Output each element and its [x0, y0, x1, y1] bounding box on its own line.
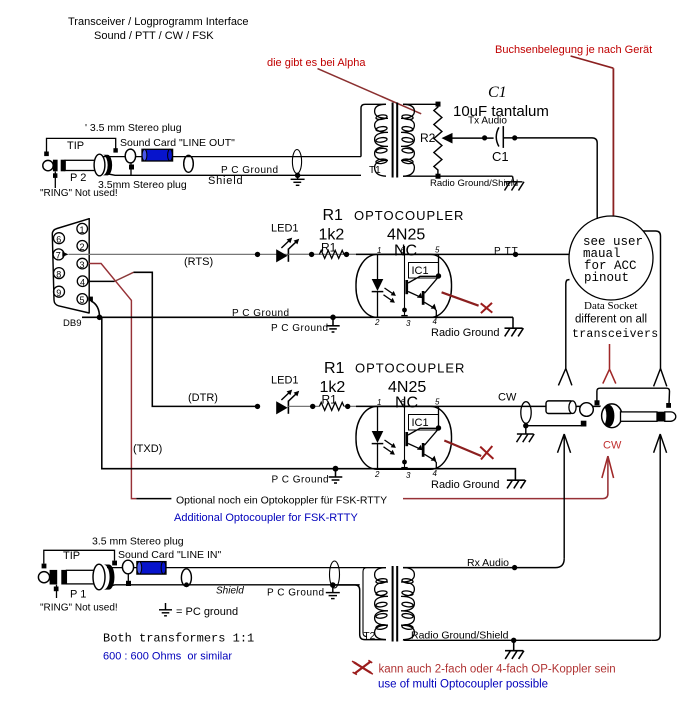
red arrow lower middle	[602, 456, 614, 478]
IC1 label box row2	[409, 415, 439, 431]
svg-text:P C Ground: P C Ground	[271, 323, 329, 334]
node dot PTT	[513, 252, 518, 257]
IC1 label box row1	[409, 263, 439, 279]
svg-text:CW: CW	[498, 392, 517, 404]
LED1 row1	[276, 249, 287, 262]
RING leader P1	[56, 585, 58, 598]
svg-text:LED1: LED1	[271, 223, 299, 235]
svg-text:= PC ground: = PC ground	[176, 606, 238, 618]
node dot before R1 row2	[310, 404, 315, 409]
svg-text:R1: R1	[323, 207, 344, 224]
svg-text:TIP: TIP	[67, 140, 84, 152]
wire DTR crossing diagonal	[115, 272, 134, 281]
opto base line row1	[404, 246, 406, 316]
DB9 pin 5	[77, 294, 88, 305]
node dot shield T2	[511, 638, 516, 643]
wire circle bottom-left down	[566, 280, 570, 369]
svg-text:6: 6	[56, 235, 61, 245]
svg-text:Both transformers 1:1: Both transformers 1:1	[103, 632, 254, 646]
P2 signal wire to ring contact	[103, 156, 126, 158]
svg-text:pinout: pinout	[584, 271, 629, 285]
pin 5 drop and node row2	[438, 406, 440, 428]
radio ground symbol at T2	[505, 640, 524, 659]
DB9 pin 4	[77, 276, 88, 287]
wire R1 to opto row1	[344, 253, 378, 255]
P1 blue inline component	[137, 562, 166, 575]
arrow lower right black	[654, 434, 667, 453]
PC ground earth symbol at P2	[291, 175, 305, 185]
CW plug shaft	[621, 412, 658, 421]
svg-text:Radio Ground: Radio Ground	[431, 327, 500, 339]
svg-text:Sound Card "LINE OUT": Sound Card "LINE OUT"	[120, 137, 235, 149]
svg-text:Sound / PTT / CW / FSK: Sound / PTT / CW / FSK	[94, 30, 214, 42]
TIP bracket pads	[44, 152, 49, 157]
svg-text:TIP: TIP	[63, 550, 80, 562]
RING leader line P2	[54, 172, 56, 189]
phototransistor 1 row2	[405, 432, 408, 446]
svg-text:Rx Audio: Rx Audio	[467, 557, 509, 569]
svg-text:use of multi Optocoupler possi: use of multi Optocoupler possible	[378, 679, 548, 691]
P2 ring contact circle	[125, 149, 135, 163]
opto base line row2	[404, 398, 406, 468]
svg-text:5: 5	[435, 398, 440, 407]
CW jack sleeve wire	[526, 425, 584, 427]
arrow upper left	[558, 369, 572, 386]
svg-text:4: 4	[433, 469, 438, 478]
PC ground earth symbol at T2	[326, 585, 340, 599]
P1 ring contact circle	[122, 560, 133, 574]
node dot after R1 row2	[345, 404, 350, 409]
radio ground riser	[651, 434, 660, 640]
transformer T1 frame left	[361, 104, 386, 156]
T2 secondary winding	[401, 568, 414, 640]
svg-text:R1: R1	[322, 393, 338, 407]
svg-text:4: 4	[80, 278, 85, 288]
svg-text:T2: T2	[364, 631, 376, 642]
svg-text:(RTS): (RTS)	[184, 256, 213, 268]
plug P2 barrel black band	[103, 155, 112, 176]
svg-text:Buchsenbelegung je nach Gerät: Buchsenbelegung je nach Gerät	[495, 44, 652, 56]
shield loop symbol at T2	[330, 561, 340, 588]
pin 7 arrow	[62, 252, 68, 257]
PC ground bus row 1	[82, 316, 513, 318]
node dot after C1	[512, 135, 517, 140]
DB9 pin 9	[54, 286, 65, 297]
svg-text:3.5 mm Stereo plug: 3.5 mm Stereo plug	[92, 536, 184, 548]
svg-text:DB9: DB9	[63, 318, 81, 329]
wire R1 to opto row2	[344, 405, 378, 407]
plug P1 tip	[38, 572, 49, 583]
wire PTT row1	[439, 253, 570, 255]
P2 signal wire	[136, 156, 361, 158]
T2 secondary bottom wire	[403, 639, 651, 642]
wire pin 5 to PC ground	[88, 297, 93, 302]
svg-text:3.5mm Stereo plug: 3.5mm Stereo plug	[98, 179, 187, 191]
svg-text:8: 8	[56, 269, 61, 279]
svg-text:NC: NC	[394, 243, 417, 260]
CW plug body	[602, 404, 622, 428]
P2 shield wire	[106, 174, 361, 176]
svg-text:Radio Ground/Shield: Radio Ground/Shield	[430, 178, 518, 189]
radio ground symbol row2	[507, 469, 526, 489]
svg-text:3: 3	[406, 471, 411, 480]
shield loop symbol at P2	[292, 150, 301, 174]
phototransistor 1 row1	[405, 280, 408, 294]
arrow lower left black	[558, 434, 571, 453]
P2 ring stub to shield	[130, 163, 132, 175]
svg-text:Shield: Shield	[216, 586, 244, 597]
svg-text:R1: R1	[321, 241, 337, 255]
svg-text:5: 5	[435, 246, 440, 255]
wire CW row2	[439, 405, 602, 407]
plug P2 ring band 2	[61, 160, 66, 172]
svg-text:NC: NC	[395, 395, 418, 412]
P1 signal wire	[107, 567, 386, 569]
svg-text:R2: R2	[420, 131, 436, 145]
CW jack cable loop	[521, 402, 531, 424]
svg-text:Radio Ground/Shield: Radio Ground/Shield	[411, 630, 509, 642]
resistor R1 row2	[319, 402, 344, 410]
plug P1 barrel black band	[104, 565, 115, 590]
P1 ring stub to shield	[127, 574, 129, 585]
svg-text:different on all: different on all	[575, 314, 647, 326]
wire Rx Audio	[403, 559, 564, 568]
svg-text:1: 1	[80, 225, 85, 235]
svg-text:(TXD): (TXD)	[133, 443, 162, 455]
arrow upper right	[654, 369, 667, 387]
inline coupler barrel	[546, 401, 573, 414]
svg-text:2: 2	[374, 470, 380, 479]
plug P1 ring band 1	[50, 570, 58, 585]
node dot under loop	[523, 423, 528, 428]
svg-text:7: 7	[56, 251, 61, 261]
svg-text:2: 2	[80, 242, 85, 252]
radio ground symbol at T1	[504, 176, 524, 190]
svg-text:600 : 600 Ohms or similar: 600 : 600 Ohms or similar	[103, 651, 232, 663]
opto LED row2	[377, 406, 379, 431]
opto top rail row2	[356, 405, 439, 407]
svg-text:OPTOCOUPLER: OPTOCOUPLER	[354, 208, 464, 223]
wire RTS from pin 7	[69, 253, 378, 255]
leader line diagonal	[571, 56, 614, 68]
P2 blue inline component	[142, 149, 173, 161]
phototransistor 2 row2	[422, 443, 425, 457]
plug P1 TIP bracket	[44, 550, 115, 563]
svg-text:Optional noch ein Optokoppler: Optional noch ein Optokoppler für FSK-RT…	[176, 495, 387, 507]
T1 core bars	[392, 103, 394, 178]
node dot before LED1 row1	[255, 252, 260, 257]
DB9 connector shell	[52, 219, 89, 313]
wire DTR to row 2	[134, 272, 258, 406]
svg-text:4N25: 4N25	[387, 227, 425, 244]
svg-text:Data Socket: Data Socket	[584, 300, 637, 312]
CW plug tip	[665, 412, 676, 421]
red X bottom	[352, 660, 373, 674]
coupler ring contact	[580, 403, 594, 417]
T2 primary winding	[375, 568, 388, 640]
DB9 pin 3	[77, 258, 88, 269]
svg-text:4: 4	[433, 317, 438, 326]
wire LED1 to R1 row2	[288, 405, 319, 407]
red cross annotation row2	[444, 441, 481, 457]
CW plug tip band	[657, 412, 665, 422]
PC ground earth symbol row1	[330, 315, 336, 321]
T2 frame left	[363, 568, 386, 637]
svg-text:5: 5	[80, 295, 85, 305]
radio ground symbol row1	[505, 317, 524, 336]
wire circle right to radio ground shield (down right side)	[643, 231, 661, 369]
black stub to optional text	[136, 498, 171, 500]
svg-text:(DTR): (DTR)	[188, 392, 218, 404]
plug P2 shaft	[65, 160, 95, 170]
svg-text:"RING" Not used!: "RING" Not used!	[40, 603, 118, 614]
DB9 pin 8	[54, 268, 65, 279]
svg-text:transceivers: transceivers	[572, 328, 658, 341]
pin 5 drop and node row1	[438, 254, 440, 276]
DB9 pin 6	[54, 233, 65, 244]
svg-text:IC1: IC1	[412, 417, 429, 429]
ACC circle	[569, 216, 653, 300]
plug P1 shaft	[66, 570, 94, 584]
red FSK line to annotation	[403, 456, 608, 499]
svg-text:P C Ground: P C Ground	[267, 588, 325, 599]
plug P2 barrel flange	[94, 154, 105, 176]
DB9 pin 2	[77, 241, 88, 252]
transformer T2 shield path	[333, 585, 386, 640]
potentiometer R2	[436, 102, 441, 107]
plug P1 ring band 2	[61, 570, 66, 585]
svg-text:' 3.5 mm Stereo plug: ' 3.5 mm Stereo plug	[85, 122, 182, 134]
node dot before R1 row1	[309, 252, 314, 257]
svg-text:CW: CW	[603, 440, 622, 452]
node dot before C1	[482, 135, 487, 140]
svg-text:4N25: 4N25	[388, 379, 426, 396]
radio ground at CW loop	[517, 426, 535, 443]
wire DTR from pin 4	[89, 280, 115, 282]
plug P2 ring band 1	[53, 160, 58, 172]
T1 secondary top wire to R2	[403, 103, 438, 105]
wire TXD red from pin 3	[89, 264, 137, 499]
svg-text:9: 9	[56, 288, 61, 298]
svg-text:3: 3	[406, 319, 411, 328]
svg-text:kann auch 2-fach oder 4-fach O: kann auch 2-fach oder 4-fach OP-Koppler …	[379, 664, 616, 676]
phototransistor 2 row1	[422, 291, 425, 305]
P1 cable entry ellipse	[181, 569, 191, 587]
T1 secondary winding	[401, 104, 414, 176]
svg-text:C1: C1	[488, 84, 507, 101]
P1 shield wire	[110, 585, 360, 586]
plug P1 barrel flange	[93, 564, 105, 590]
T1 primary winding	[375, 104, 388, 176]
DB9 pin 1	[77, 223, 88, 234]
node dot after R1 row1	[344, 252, 349, 257]
ACC circle text	[583, 235, 643, 285]
svg-text:LED1: LED1	[271, 375, 299, 387]
optocoupler IC1 body row1	[356, 254, 452, 317]
PC ground legend symbol	[159, 603, 172, 616]
svg-text:1: 1	[377, 246, 381, 255]
svg-text:Tx Audio: Tx Audio	[468, 116, 507, 127]
resistor R1 row1	[319, 250, 344, 258]
svg-text:3: 3	[80, 260, 85, 270]
PC ground drop to row 2	[102, 317, 359, 468]
node dot before LED1 row2	[255, 404, 260, 409]
svg-text:die gibt es bei Alpha: die gibt es bei Alpha	[267, 57, 366, 69]
svg-text:C1: C1	[492, 149, 509, 164]
red stub and arrow upper middle	[609, 344, 611, 369]
svg-text:2: 2	[374, 318, 380, 327]
svg-text:R1: R1	[324, 360, 345, 377]
TIP bracket pads P1	[42, 564, 47, 569]
R2 wiper arrow	[442, 133, 453, 144]
red cross annotation row1	[442, 292, 479, 305]
svg-text:P C Ground: P C Ground	[232, 308, 290, 319]
svg-text:P 2: P 2	[70, 172, 86, 184]
svg-text:Sound Card "LINE IN": Sound Card "LINE IN"	[118, 549, 221, 561]
svg-text:Radio Ground: Radio Ground	[431, 479, 500, 491]
wire C1 to ACC circle	[503, 138, 597, 219]
PC ground bus row 2 tail	[359, 468, 513, 470]
wire LED1 to R1 row1	[288, 253, 319, 255]
node DB9 ground junction	[97, 315, 103, 321]
P2 cable entry ellipse	[184, 155, 194, 172]
svg-text:IC1: IC1	[412, 265, 429, 277]
plug P2 TIP bracket	[47, 138, 116, 155]
svg-text:P C Ground: P C Ground	[221, 165, 279, 176]
opto top rail row1	[356, 253, 439, 255]
svg-text:1: 1	[377, 398, 381, 407]
svg-text:OPTOCOUPLER: OPTOCOUPLER	[355, 361, 465, 376]
svg-text:Additional Optocoupler for FSK: Additional Optocoupler for FSK-RTTY	[174, 512, 358, 524]
LED1 row2	[276, 401, 287, 414]
opto LED row1	[377, 254, 379, 279]
svg-text:T1: T1	[369, 165, 381, 176]
capacitor C1	[496, 127, 499, 146]
leader vertical red line to ACC circle	[612, 68, 614, 216]
DB9 pin 7	[53, 249, 64, 260]
T2 core bars	[392, 566, 394, 642]
svg-text:P 1: P 1	[70, 589, 86, 601]
T1 secondary bottom wire / radio ground shield line	[403, 175, 513, 177]
node dot Rx	[512, 565, 517, 570]
optocoupler IC1 body row2	[356, 406, 452, 469]
svg-text:Transceiver / Logprogramm Inte: Transceiver / Logprogramm Interface	[68, 16, 249, 28]
leader line to T1 core	[318, 69, 422, 114]
svg-text:P C Ground: P C Ground	[272, 475, 330, 486]
svg-text:Shield: Shield	[208, 175, 243, 187]
PC ground earth symbol row2	[333, 466, 339, 472]
jack bracket wire to tip	[597, 388, 670, 404]
plug P2 tip	[43, 160, 53, 170]
Rx audio riser	[563, 434, 565, 559]
